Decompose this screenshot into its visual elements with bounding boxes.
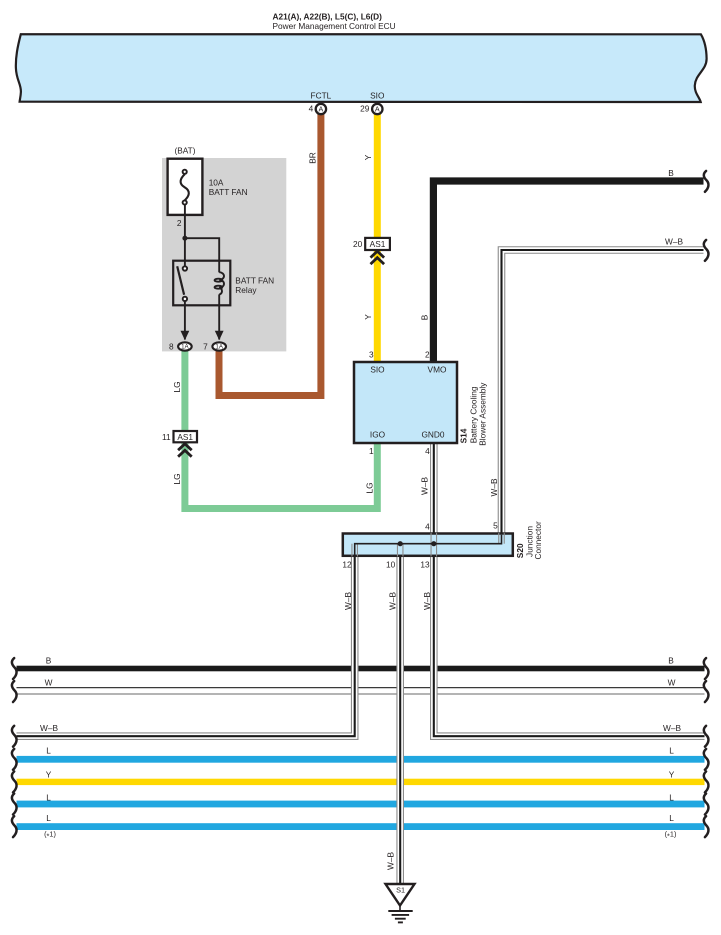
svg-text:W: W xyxy=(45,677,53,687)
svg-text:W–B: W–B xyxy=(420,477,430,495)
svg-text:8: 8 xyxy=(169,342,174,352)
svg-text:BR: BR xyxy=(307,152,317,164)
svg-text:A: A xyxy=(319,105,324,114)
svg-text:(BAT): (BAT) xyxy=(174,146,195,156)
svg-text:S14: S14 xyxy=(459,428,469,443)
svg-text:B: B xyxy=(668,655,674,665)
svg-text:L: L xyxy=(669,746,674,756)
svg-text:L: L xyxy=(669,813,674,823)
svg-text:W–B: W–B xyxy=(386,852,396,870)
svg-text:GND0: GND0 xyxy=(421,429,444,439)
svg-text:11: 11 xyxy=(162,432,171,442)
svg-text:IGO: IGO xyxy=(370,429,386,439)
svg-text:13: 13 xyxy=(420,559,430,569)
svg-text:W–B: W–B xyxy=(40,723,58,733)
svg-text:W–B: W–B xyxy=(388,592,398,610)
svg-text:L: L xyxy=(46,813,51,823)
svg-text:LG: LG xyxy=(364,482,374,493)
svg-text:Connector: Connector xyxy=(533,521,543,560)
svg-text:L: L xyxy=(46,792,51,802)
svg-text:4: 4 xyxy=(309,104,314,114)
svg-text:10: 10 xyxy=(386,559,396,569)
svg-text:W: W xyxy=(668,677,676,687)
svg-text:3: 3 xyxy=(369,350,374,360)
svg-text:Y: Y xyxy=(363,314,373,320)
svg-text:W–B: W–B xyxy=(422,592,432,610)
svg-text:W–B: W–B xyxy=(663,723,681,733)
svg-text:LG: LG xyxy=(172,473,182,484)
svg-text:Relay: Relay xyxy=(235,285,257,295)
svg-text:B: B xyxy=(668,168,674,178)
svg-text:12: 12 xyxy=(342,559,352,569)
svg-text:BATT FAN: BATT FAN xyxy=(209,187,248,197)
svg-text:Y: Y xyxy=(363,154,373,160)
svg-text:10A: 10A xyxy=(209,178,224,188)
svg-text:1A: 1A xyxy=(215,344,223,351)
svg-text:L: L xyxy=(669,792,674,802)
svg-text:L: L xyxy=(46,746,51,756)
svg-text:5: 5 xyxy=(493,521,498,531)
svg-text:BATT FAN: BATT FAN xyxy=(235,275,274,285)
svg-text:W–B: W–B xyxy=(665,236,683,246)
svg-text:Power Management Control ECU: Power Management Control ECU xyxy=(273,21,396,31)
svg-text:Y: Y xyxy=(46,769,52,779)
svg-text:A21(A), A22(B), L5(C), L6(D): A21(A), A22(B), L5(C), L6(D) xyxy=(273,12,383,22)
svg-text:S20: S20 xyxy=(515,543,525,558)
svg-text:VMO: VMO xyxy=(428,365,447,375)
svg-text:2: 2 xyxy=(425,350,430,360)
svg-text:LG: LG xyxy=(172,381,182,392)
svg-text:1: 1 xyxy=(369,446,374,456)
svg-text:2: 2 xyxy=(177,218,182,228)
svg-text:4: 4 xyxy=(425,446,430,456)
svg-text:A: A xyxy=(375,105,380,114)
svg-text:7: 7 xyxy=(203,342,208,352)
svg-text:4: 4 xyxy=(425,521,430,531)
svg-text:Y: Y xyxy=(669,769,675,779)
svg-text:B: B xyxy=(419,314,429,320)
svg-text:SIO: SIO xyxy=(370,365,385,375)
svg-text:W–B: W–B xyxy=(489,478,499,496)
svg-text:S1: S1 xyxy=(396,885,405,894)
svg-text:20: 20 xyxy=(353,239,363,249)
svg-text:FCTL: FCTL xyxy=(311,90,332,100)
svg-text:SIO: SIO xyxy=(370,90,385,100)
svg-text:W–B: W–B xyxy=(343,592,353,610)
svg-text:Blower Assembly: Blower Assembly xyxy=(478,382,488,446)
svg-text:29: 29 xyxy=(360,104,370,114)
svg-text:B: B xyxy=(46,655,52,665)
svg-text:1A: 1A xyxy=(181,344,189,351)
svg-text:AS1: AS1 xyxy=(177,432,193,442)
svg-text:AS1: AS1 xyxy=(370,239,386,249)
